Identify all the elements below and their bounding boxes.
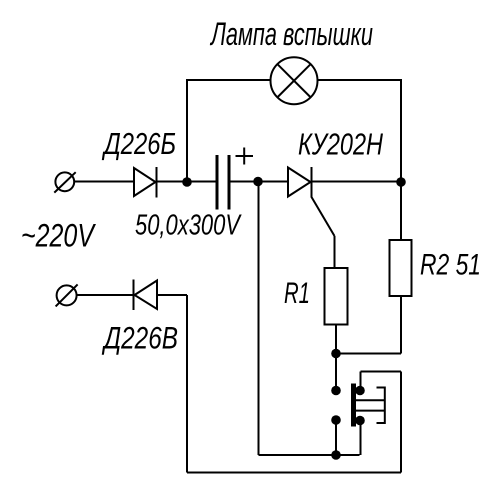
junction node capacitor output: [253, 177, 263, 187]
wire X1 to diode VD1: [74, 181, 134, 183]
wire switch top horizontal: [361, 371, 402, 373]
wire left outer vertical: [186, 295, 188, 473]
pushbutton SB1 bar top contact: [355, 386, 365, 396]
svg-text:Лампа вспышки: Лампа вспышки: [210, 16, 373, 52]
wire switch top vertical: [360, 372, 362, 391]
wire lamp right horizontal: [317, 79, 401, 81]
wire bottom inner horizontal: [259, 454, 360, 456]
diode VD2 Д226В: [134, 280, 158, 311]
terminal X2: [56, 284, 78, 306]
junction node switch left bottom contact: [331, 415, 341, 425]
svg-text:R2 51: R2 51: [420, 249, 481, 282]
junction node bottom inner: [331, 450, 341, 460]
wire capacitor node down to bottom: [258, 182, 260, 456]
wire R1 bottom to junction: [335, 325, 337, 354]
svg-text:Д226Б: Д226Б: [102, 126, 176, 161]
wire gate vertical to R1: [334, 236, 336, 268]
junction node at lamp branch: [182, 177, 192, 187]
wire switch left bottom contact down: [335, 420, 337, 455]
junction node R1/R2: [331, 349, 341, 359]
wire switch bottom vertical: [360, 421, 362, 456]
wire right vertical lamp to R2: [400, 79, 402, 240]
wire R2 bottom vertical: [400, 296, 402, 354]
wire right outer vertical: [400, 372, 402, 473]
svg-text:R1: R1: [284, 277, 310, 310]
wire left vertical to main line: [186, 79, 188, 182]
lamp EL1: [271, 57, 318, 104]
pushbutton SB1 button cap: [377, 388, 385, 424]
pushbutton SB1 movable bar: [351, 384, 356, 427]
capacitor C1 polarity plus: [236, 148, 254, 165]
wire VD2 to left rail: [157, 294, 187, 296]
resistor R2: [390, 240, 412, 296]
capacitor C1: [217, 155, 229, 210]
svg-text:КУ202Н: КУ202Н: [298, 127, 383, 162]
wire C1 to thyristor VS1: [231, 181, 289, 183]
svg-text:50,0х300V: 50,0х300V: [135, 210, 242, 242]
wire lamp left horizontal: [186, 79, 271, 81]
wire bottom outer horizontal: [187, 472, 401, 474]
svg-text:~220V: ~220V: [21, 218, 96, 254]
pushbutton SB1 bar bottom contact: [355, 416, 365, 426]
junction node switch left top contact: [331, 386, 341, 396]
wire junction to R2 branch horizontal: [336, 353, 401, 355]
pushbutton SB1 actuator shaft: [356, 400, 385, 410]
wire VD1 to capacitor C1: [157, 181, 216, 183]
wire junction down to switch contact: [335, 354, 337, 391]
resistor R1: [325, 268, 348, 325]
wire X2 to diode VD2: [77, 294, 134, 296]
junction node right rail: [396, 177, 406, 187]
wire VS1 cathode to right rail: [312, 181, 402, 183]
thyristor VS1 КУ202Н: [288, 167, 335, 236]
svg-text:Д226В: Д226В: [102, 320, 178, 356]
diode VD1 Д226Б: [134, 167, 157, 198]
terminal X1: [54, 172, 75, 192]
